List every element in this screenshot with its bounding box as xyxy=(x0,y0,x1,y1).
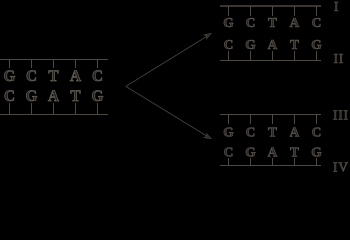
svg-text:G: G xyxy=(223,15,234,30)
svg-text:A: A xyxy=(290,15,300,30)
svg-text:IV: IV xyxy=(333,160,349,175)
svg-text:A: A xyxy=(70,68,81,85)
svg-text:T: T xyxy=(70,88,80,105)
svg-text:II: II xyxy=(334,51,344,66)
bottom-right ladder top rail xyxy=(220,114,321,115)
upper arrowhead xyxy=(204,33,212,39)
svg-text:C: C xyxy=(92,68,103,85)
svg-text:C: C xyxy=(224,145,234,160)
DNA semiconservative replication diagram xyxy=(0,0,350,174)
svg-text:A: A xyxy=(48,88,59,105)
svg-text:T: T xyxy=(268,124,277,139)
top-right ladder bottom tick 1 xyxy=(228,51,229,61)
bottom-right ladder bottom rail xyxy=(220,165,321,166)
left ladder letters xyxy=(4,68,104,105)
svg-text:C: C xyxy=(312,124,322,139)
left ladder bottom tick 1 xyxy=(9,103,10,115)
svg-text:G: G xyxy=(92,88,104,105)
svg-text:I: I xyxy=(334,0,339,14)
right ladders letters xyxy=(223,15,322,160)
bottom-right ladder bottom tick 1 xyxy=(228,158,229,166)
svg-text:C: C xyxy=(224,37,234,52)
lower arrow shaft xyxy=(126,86,207,136)
svg-text:T: T xyxy=(48,68,58,85)
svg-text:G: G xyxy=(26,88,38,105)
left ladder top tick 1 xyxy=(9,59,10,68)
svg-text:G: G xyxy=(311,37,322,52)
top-right ladder bottom rail xyxy=(220,60,321,61)
svg-text:C: C xyxy=(4,88,15,105)
svg-text:A: A xyxy=(290,124,300,139)
left ladder top rail xyxy=(0,59,108,60)
svg-text:C: C xyxy=(26,68,37,85)
svg-text:C: C xyxy=(312,15,322,30)
roman numerals xyxy=(333,0,349,175)
left ladder bottom rail xyxy=(0,114,108,115)
bottom-right ladder top tick 1 xyxy=(228,114,229,124)
svg-text:G: G xyxy=(245,37,256,52)
top-right ladder top rail xyxy=(220,5,321,7)
svg-text:A: A xyxy=(268,145,278,160)
top-right ladder top tick 1 xyxy=(228,6,229,16)
svg-text:T: T xyxy=(268,15,277,30)
svg-text:T: T xyxy=(290,37,299,52)
lower arrowhead xyxy=(204,133,212,139)
svg-text:C: C xyxy=(246,124,256,139)
svg-text:G: G xyxy=(4,68,16,85)
svg-text:G: G xyxy=(245,145,256,160)
svg-text:III: III xyxy=(333,108,349,123)
svg-text:G: G xyxy=(223,124,234,139)
arrow shafts xyxy=(126,36,207,136)
svg-text:C: C xyxy=(246,15,256,30)
upper arrow shaft xyxy=(126,36,207,86)
svg-text:T: T xyxy=(290,145,299,160)
svg-text:G: G xyxy=(311,145,322,160)
svg-text:A: A xyxy=(268,37,278,52)
